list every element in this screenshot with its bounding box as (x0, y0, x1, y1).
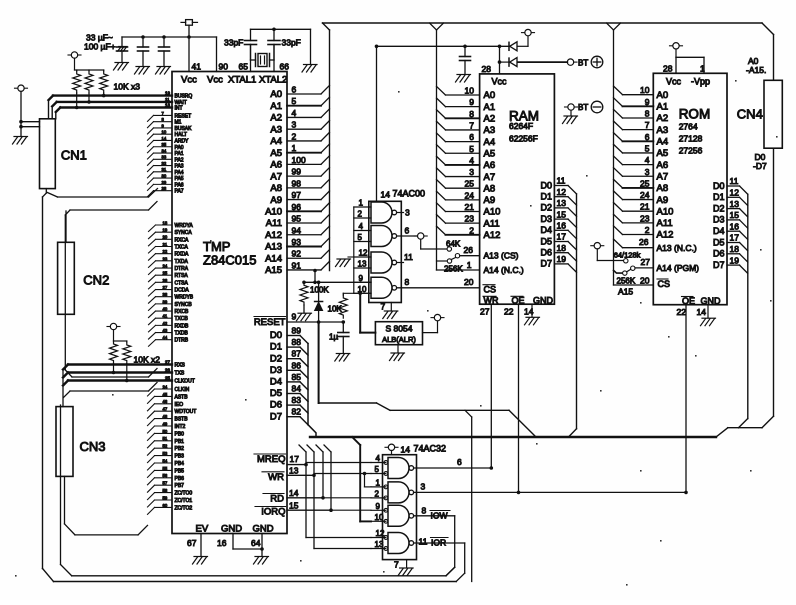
svg-text:A12: A12 (265, 230, 282, 241)
wire - CPU address bus vertical (329, 30, 331, 271)
wire - inner bottom bus (72, 567, 455, 576)
RAM pin 28 Vcc stub (482, 45, 502, 75)
CN2 pin stub TXCA (149, 242, 173, 253)
svg-text:1: 1 (292, 143, 297, 153)
svg-text:D3: D3 (270, 365, 282, 376)
RAM pin A5 stub (5) (437, 144, 496, 160)
svg-text:15: 15 (730, 210, 740, 220)
svg-text:3: 3 (645, 167, 650, 177)
CN1 pin stub PA5 (148, 174, 173, 185)
ROM pin A3 stub (7) (614, 120, 669, 136)
svg-text:87: 87 (292, 349, 302, 359)
wire - CN3 to CPU heavy (63, 368, 172, 378)
svg-text:ARDY: ARDY (175, 138, 190, 144)
svg-text:54: 54 (163, 458, 168, 463)
svg-text:12: 12 (376, 529, 385, 538)
svg-text:33pF: 33pF (282, 38, 301, 48)
pin 90 Vcc stub (217, 37, 229, 72)
svg-text:32: 32 (162, 161, 167, 166)
ROM pin A0 stub (10) (614, 85, 669, 101)
svg-text:S 8054: S 8054 (386, 324, 413, 334)
svg-text:11: 11 (165, 97, 170, 102)
svg-text:47: 47 (163, 407, 168, 412)
svg-text:OE: OE (682, 296, 695, 306)
svg-text:TXDB: TXDB (175, 331, 189, 337)
wire - CN1 to CPU heavy (56, 103, 172, 119)
svg-text:IOR: IOR (431, 538, 446, 548)
svg-text:6: 6 (645, 132, 650, 142)
wire - NAND input common (353, 207, 355, 293)
CN2 pin stub RTSA (149, 271, 173, 282)
svg-text:A6: A6 (270, 160, 282, 171)
svg-text:A1: A1 (657, 102, 669, 113)
svg-text:A7: A7 (657, 171, 669, 182)
ROM pin D2 stub (713, 199, 748, 217)
RAM pin A7 stub (3) (437, 167, 496, 183)
svg-text:23: 23 (465, 214, 475, 224)
RAM pin 22 OE (504, 304, 520, 494)
svg-text:TXCA: TXCA (175, 245, 189, 251)
svg-text:PA5: PA5 (175, 176, 184, 182)
wire - CN3 to CPU heavy (63, 360, 172, 370)
svg-text:9: 9 (376, 502, 381, 511)
pin 13 WR (262, 466, 316, 484)
pin A10 stub (96) (265, 202, 329, 218)
Vcc terminal (434, 314, 440, 320)
svg-text:33pF: 33pF (224, 38, 243, 48)
svg-text:PA6: PA6 (175, 182, 184, 188)
connector CN1 (40, 119, 87, 189)
svg-text:A3: A3 (270, 124, 282, 135)
capacitor 1uF reset (329, 322, 349, 353)
svg-text:15: 15 (557, 209, 567, 219)
svg-text:8: 8 (422, 506, 427, 516)
svg-text:DCDA: DCDA (175, 288, 190, 294)
label 33uF / 100uF (84, 33, 116, 52)
svg-text:1: 1 (376, 478, 381, 487)
CN3 pin stub ZC/TO1 (148, 495, 173, 507)
ground (13, 137, 28, 145)
pin 4 input (371, 454, 386, 463)
svg-text:-A15.: -A15. (746, 65, 766, 75)
jumper terminal (594, 243, 600, 249)
wire - data band upper left (319, 403, 390, 410)
svg-text:INT2: INT2 (175, 424, 186, 430)
svg-text:ALB(ALR): ALB(ALR) (382, 335, 416, 344)
svg-text:D0: D0 (540, 180, 552, 190)
wire - control bus vertical (324, 445, 331, 510)
svg-text:99: 99 (292, 167, 302, 177)
svg-text:D2: D2 (713, 203, 725, 213)
svg-text:6: 6 (469, 132, 474, 142)
svg-text:46: 46 (163, 399, 168, 404)
svg-text:10: 10 (465, 86, 475, 96)
svg-text:58: 58 (163, 488, 168, 493)
RAM WR label (483, 296, 499, 306)
svg-text:82: 82 (292, 407, 302, 417)
pin A13 stub (93) (265, 237, 329, 253)
wire - CN3 to CPU heavy (63, 376, 172, 386)
svg-text:A5: A5 (484, 148, 496, 159)
wire - CN3 bundle outline (64, 383, 158, 398)
CN3 pin stub ASTB (148, 392, 173, 404)
svg-text:91: 91 (292, 260, 302, 270)
pin 12 input (371, 529, 386, 538)
svg-text:A8: A8 (657, 183, 669, 194)
pin A12 stub (94) (265, 225, 329, 241)
svg-text:11: 11 (730, 176, 739, 186)
CN2 pin stub TXDA (149, 256, 173, 267)
svg-text:24: 24 (163, 263, 168, 268)
CN1 pin stub M1 (148, 117, 173, 128)
Vcc terminal (673, 43, 679, 49)
svg-text:D2: D2 (540, 203, 552, 213)
svg-text:RXCB: RXCB (175, 309, 190, 315)
RAM pin A1 stub (9) (437, 97, 496, 113)
CN3 pin stub PB1 (148, 436, 173, 448)
ROM pin A6 stub (4) (614, 155, 669, 171)
RAM pin D5 stub (540, 232, 576, 250)
ROM pin A12 stub (2) (614, 225, 674, 241)
pin 9 input (371, 502, 386, 511)
svg-text:100: 100 (292, 155, 306, 165)
OR gate U5C (388, 505, 409, 526)
RAM pin A4 stub (6) (437, 132, 496, 148)
wire - RESET heavy drop to data band (318, 322, 320, 403)
ROM pin A5 stub (5) (614, 143, 669, 159)
CN1 pin stub PA4 (148, 167, 173, 178)
svg-text:22: 22 (677, 307, 687, 317)
pin D0 stub (89) (270, 326, 308, 344)
resistor R4 10K (110, 341, 118, 374)
BT- terminal (565, 101, 603, 115)
svg-text:D7: D7 (540, 259, 552, 269)
svg-text:52: 52 (163, 444, 168, 449)
RAM pin 26 A13 stub (455, 245, 479, 258)
svg-text:14: 14 (697, 307, 707, 317)
svg-text:D3: D3 (713, 215, 725, 225)
svg-text:WDTOUT: WDTOUT (175, 409, 197, 415)
svg-text:GND: GND (253, 524, 274, 535)
svg-text:3: 3 (421, 482, 426, 492)
svg-text:DTRA: DTRA (175, 266, 189, 272)
wire - feed IORQ to pin9 (331, 509, 371, 511)
wire - feed pin13 (314, 548, 371, 550)
svg-text:4: 4 (376, 454, 381, 463)
CN2 pin stub SYNCB (149, 299, 173, 310)
jumper wire to A14 (627, 269, 631, 272)
svg-text:Vcc: Vcc (492, 77, 508, 87)
crystal X1 (251, 54, 275, 67)
svg-text:D3: D3 (540, 214, 552, 224)
svg-text:28: 28 (162, 186, 167, 191)
wire - A15 tap (313, 269, 317, 283)
svg-text:49: 49 (163, 421, 168, 426)
CN2 pin stub RXDA (149, 249, 173, 260)
CN2 pin stub WRDYB (149, 292, 173, 303)
wire - Vcc filter rail (122, 35, 217, 39)
svg-text:Vcc: Vcc (207, 75, 223, 86)
IC 74AC00 U2 outline (369, 189, 425, 303)
svg-text:CS: CS (484, 285, 497, 295)
pin 5 input (354, 233, 371, 242)
wire - feed S8054 to pin10 heavy (360, 520, 371, 522)
wire - S8054 output heavy (358, 292, 375, 333)
svg-text:D4: D4 (713, 226, 725, 236)
svg-text:13: 13 (375, 540, 384, 549)
svg-text:16: 16 (217, 538, 227, 548)
wire - outer bottom bus (43, 569, 457, 582)
pin 5 input (371, 465, 386, 474)
wire - top address bus line (323, 22, 763, 24)
svg-text:10K: 10K (328, 305, 343, 314)
svg-text:13: 13 (557, 198, 567, 208)
ground (302, 65, 317, 73)
RAM pin D3 stub (540, 209, 576, 227)
CN2 pin stub DCDA (149, 285, 173, 296)
RAM pin D7 stub (540, 254, 576, 272)
CN1 pin stub PA1 (148, 148, 173, 159)
svg-text:10K x2: 10K x2 (134, 355, 161, 365)
wire - CN1 bottom stub (43, 189, 47, 197)
wire - chamfer into data band (739, 419, 748, 428)
svg-text:A7: A7 (270, 171, 282, 182)
RAM pin A11 stub (23) (437, 214, 500, 230)
svg-text:ROM: ROM (679, 107, 711, 122)
svg-text:CLKIN: CLKIN (175, 387, 190, 393)
svg-text:85: 85 (292, 372, 302, 382)
wire - RAM address bus vertical (436, 30, 438, 270)
svg-text:PB5: PB5 (175, 468, 185, 474)
svg-text:D7: D7 (270, 411, 282, 422)
svg-text:D1: D1 (713, 192, 725, 202)
svg-text:13: 13 (289, 466, 299, 476)
wire - D1 to charge terminal (517, 36, 528, 46)
svg-text:A13: A13 (265, 242, 282, 253)
OR gate U5B (388, 482, 409, 503)
svg-text:12: 12 (359, 249, 368, 258)
pin A4 stub (2) (270, 131, 329, 147)
svg-text:A10: A10 (484, 207, 501, 218)
capacitor 33pF right (268, 29, 301, 60)
svg-text:A5: A5 (270, 148, 282, 159)
pin A8 stub (98) (270, 178, 329, 194)
pin 10 input (371, 513, 386, 522)
svg-text:20: 20 (640, 276, 650, 286)
svg-text:PA0: PA0 (175, 145, 184, 151)
svg-text:A15: A15 (618, 287, 633, 297)
RAM pin D4 stub (540, 221, 576, 239)
svg-text:D5: D5 (540, 236, 552, 246)
RAM pin D0 stub (540, 176, 576, 194)
ground (156, 67, 171, 75)
svg-text:-Vpp: -Vpp (691, 77, 710, 87)
svg-text:RESET: RESET (175, 113, 192, 119)
svg-text:22: 22 (504, 307, 514, 317)
pin GND stub (397, 345, 399, 353)
svg-text:64: 64 (251, 538, 261, 548)
svg-text:A2: A2 (270, 113, 282, 124)
svg-text:18: 18 (730, 244, 740, 254)
svg-text:74AC00: 74AC00 (393, 189, 426, 199)
svg-text:A3: A3 (657, 125, 669, 136)
svg-text:D5: D5 (270, 388, 282, 399)
svg-text:51: 51 (163, 436, 168, 441)
wire - CN2 bundle outline (65, 202, 157, 378)
RAM pin A8 stub (25) (437, 179, 496, 195)
svg-text:100 µF+: 100 µF+ (84, 42, 116, 52)
svg-text:BUSAK: BUSAK (175, 126, 193, 132)
wire - RAM data bus vertical (576, 194, 578, 429)
wire - inner loop left vertical (61, 405, 72, 576)
svg-text:18: 18 (163, 220, 168, 225)
wire - chamfer to RAM address ladder (430, 23, 437, 30)
svg-text:DTRB: DTRB (175, 338, 189, 344)
svg-text:D4: D4 (270, 377, 282, 388)
svg-text:41: 41 (163, 314, 168, 319)
ground (701, 318, 716, 326)
wire - chamfer into data band (762, 416, 774, 428)
svg-text:IEO: IEO (175, 402, 184, 408)
pin 13 input (371, 540, 386, 549)
svg-text:2: 2 (358, 210, 363, 219)
wire - S8054 Vcc (423, 321, 438, 333)
wire - outer loop left vertical (42, 197, 44, 569)
svg-text:45: 45 (163, 392, 168, 397)
CN3 pin stub BSTB (148, 414, 173, 426)
svg-text:23: 23 (640, 213, 650, 223)
ROM pin A11 stub (23) (614, 213, 673, 229)
svg-text:A12: A12 (484, 230, 501, 241)
pin 13 input (354, 260, 371, 269)
connector CN4 (737, 56, 783, 171)
svg-text:10: 10 (640, 85, 650, 95)
svg-text:39: 39 (163, 299, 168, 304)
terminal left (18, 85, 24, 91)
svg-text:9: 9 (359, 274, 364, 283)
ROM pin A7 stub (3) (614, 167, 669, 183)
charge terminal (525, 29, 531, 35)
svg-text:11: 11 (419, 537, 428, 547)
RAM pin A3 stub (7) (437, 120, 496, 136)
ground (398, 568, 413, 576)
svg-text:A12: A12 (657, 230, 674, 241)
pin D3 stub (86) (270, 360, 308, 378)
svg-text:2: 2 (292, 131, 297, 141)
svg-text:86: 86 (292, 360, 302, 370)
svg-text:88: 88 (292, 337, 302, 347)
svg-text:55: 55 (163, 466, 168, 471)
RAM pin A10 stub (21) (437, 202, 501, 218)
RAM pin A6 stub (4) (437, 155, 496, 171)
ROM pin A9 stub (24) (614, 190, 669, 206)
jumper select 256K (437, 259, 464, 274)
svg-text:WRDYB: WRDYB (175, 295, 194, 301)
pin A9 stub (97) (270, 190, 329, 206)
svg-text:27128: 27128 (679, 134, 703, 144)
svg-text:24: 24 (465, 190, 475, 200)
svg-text:27: 27 (641, 257, 651, 267)
svg-text:XTAL1: XTAL1 (228, 75, 256, 86)
svg-text:48: 48 (163, 414, 168, 419)
svg-text:14: 14 (162, 136, 167, 141)
svg-text:53: 53 (163, 451, 168, 456)
svg-text:1: 1 (359, 199, 364, 208)
ROM pin D1 stub (713, 188, 748, 206)
CPU U1 TMP Z84C015 body (172, 72, 287, 534)
RAM pin D6 stub (540, 243, 576, 261)
svg-text:15: 15 (289, 501, 299, 511)
CN2 pin stub TXDB (149, 328, 173, 339)
svg-text:A3: A3 (484, 125, 496, 136)
svg-text:3: 3 (405, 208, 410, 218)
wire - gate D output 11 IOR (414, 537, 465, 582)
svg-text:5: 5 (292, 96, 297, 106)
svg-text:92: 92 (292, 249, 302, 259)
wire - band right link (716, 428, 762, 437)
wire (75, 58, 104, 70)
svg-text:21: 21 (640, 202, 650, 212)
ROM pin A1 stub (9) (614, 97, 669, 113)
wire - control bus vertical (316, 445, 323, 498)
svg-text:60: 60 (163, 503, 168, 508)
svg-text:GND: GND (533, 296, 554, 306)
diode D1 (508, 42, 510, 50)
svg-text:XTAL2: XTAL2 (259, 75, 287, 86)
svg-text:RXCA: RXCA (175, 237, 190, 243)
OR gate U5D (388, 533, 409, 554)
svg-text:26: 26 (639, 237, 649, 247)
wire - ROM data bus vertical (747, 194, 749, 418)
svg-text:28: 28 (663, 64, 673, 74)
wire - data bus vertical (307, 344, 309, 425)
CN3 pin stub ZC/TO0 (148, 488, 173, 500)
svg-text:21: 21 (465, 202, 475, 212)
svg-text:11: 11 (557, 176, 566, 186)
svg-text:RXDA: RXDA (175, 252, 190, 258)
svg-text:29: 29 (162, 180, 167, 185)
svg-text:2764: 2764 (679, 122, 698, 132)
svg-text:19: 19 (730, 255, 740, 265)
svg-text:95: 95 (292, 214, 302, 224)
svg-text:17: 17 (290, 454, 300, 464)
svg-text:6: 6 (457, 457, 462, 467)
ROM pin A8 stub (25) (614, 178, 669, 194)
svg-text:8: 8 (645, 109, 650, 119)
svg-text:12: 12 (730, 188, 740, 198)
pin 67 EV (187, 524, 209, 557)
svg-text:6: 6 (292, 85, 297, 95)
svg-text:11: 11 (404, 252, 413, 262)
pin D7 stub (82) (270, 407, 308, 425)
svg-text:84: 84 (292, 384, 302, 394)
svg-text:PB7: PB7 (175, 483, 185, 489)
svg-text:PB2: PB2 (175, 446, 185, 452)
ROM pin A4 stub (6) (614, 132, 669, 148)
svg-text:A14 (N.C.): A14 (N.C.) (484, 265, 524, 275)
svg-text:64K: 64K (446, 240, 461, 249)
NAND gate U2A (371, 202, 392, 223)
wire - feed MREQ to pin4 (306, 462, 371, 464)
svg-text:23: 23 (163, 256, 168, 261)
ground (297, 313, 312, 321)
svg-text:67: 67 (187, 538, 197, 548)
wire - chamfer right side of split (437, 23, 444, 30)
OR gate U5A (388, 458, 409, 479)
wire - chamfer to ROM address ladder (607, 23, 614, 30)
pin 4 input (354, 222, 371, 231)
svg-text:A1: A1 (270, 101, 282, 112)
